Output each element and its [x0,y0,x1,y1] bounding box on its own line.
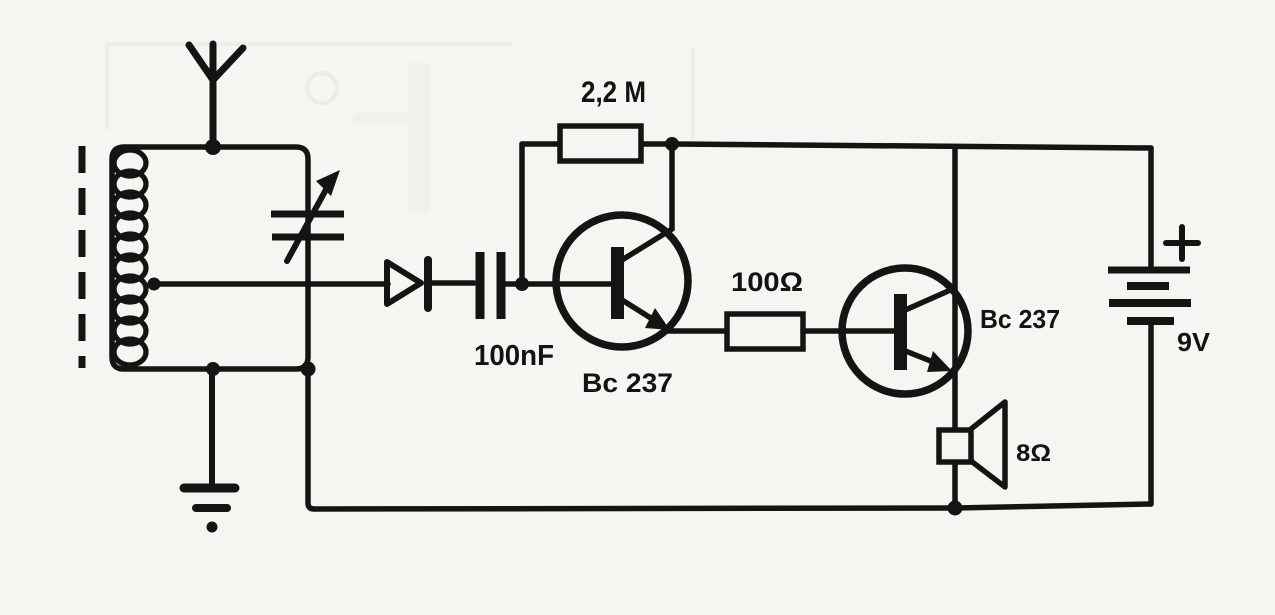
svg-text:9V: 9V [1177,327,1211,357]
svg-text:Bc 237: Bc 237 [980,304,1060,334]
resistor R2 100ohm body [727,314,803,349]
svg-text:100nF: 100nF [474,340,554,372]
battery B1 top lead [1148,148,1154,268]
wire emitter T1 to resistor R2 [664,328,727,334]
node bottom-ground junction [206,362,220,376]
wire top rail [672,144,1151,148]
battery B1 plates [1108,270,1191,321]
transistor T1 emitter lead + arrow [622,300,657,322]
faint scan ghost: circle [307,73,337,103]
node antenna junction [205,139,221,155]
wire speaker branch [952,147,958,429]
bottom rail wire [308,369,1151,509]
ground branch wire [209,369,215,487]
transistor T2 base bar [894,294,907,370]
node collector T1 [665,137,679,151]
svg-text:100Ω: 100Ω [731,267,803,297]
wire to resistor R1 [522,141,560,147]
variable capacitor arrow [287,184,329,261]
wire capacitor to base T1 [506,281,613,287]
resistor R1 2.2M body [560,126,641,161]
speaker LS coil box [939,430,971,462]
speaker LS horn [971,402,1005,487]
diode D1 [387,262,421,304]
variable capacitor CV plates [271,214,344,237]
faint scan ghost: smudge [353,113,409,123]
transistor T2 emitter lead + arrow [903,350,938,364]
LC tank loop (coil frame + variable-cap branch) [112,147,308,369]
svg-text:Bc 237: Bc 237 [582,368,673,398]
faint scan ghost: rectangle top-left [107,44,693,140]
wire resistor to collector node [641,141,673,147]
transistor T1 collector lead [622,144,672,260]
node coil tap [148,278,161,291]
transistor T1 base bar [611,247,624,319]
svg-text:2,2 M: 2,2 M [581,76,646,109]
svg-text:8Ω: 8Ω [1016,440,1051,467]
wire R2 to base T2 [803,328,896,334]
battery B1 bottom lead [1148,325,1154,504]
plus sign [1166,240,1198,246]
ferrite rod dashed line [79,146,86,368]
ground symbol [184,484,235,493]
wire diode to capacitor [432,280,474,286]
node bottom-cap junction [301,362,316,377]
transistor T2 collector lead [903,288,955,311]
transistor T1 BC237 circle [556,215,688,347]
transistor T2 BC237 circle [842,268,968,394]
wire tap to diode [154,281,388,287]
wire feedback riser [519,144,525,284]
faint scan ghost: vertical strip [408,63,430,213]
antenna [189,44,243,148]
coil L1 loops [114,150,146,365]
capacitor C1 100nF plates [480,252,501,319]
node base junction [515,277,529,291]
node bottom speaker junction [948,501,963,516]
main ink [82,44,1198,533]
